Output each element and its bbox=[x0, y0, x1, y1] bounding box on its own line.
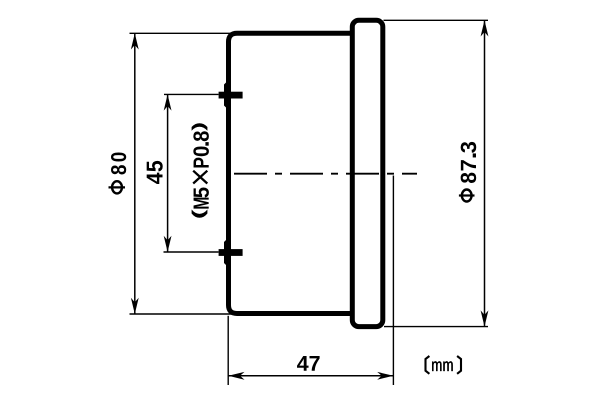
stud boss lower bbox=[224, 237, 229, 268]
extension line phi87.3 top bbox=[384, 19, 489, 21]
arrow 45 bottom bbox=[164, 236, 172, 252]
label 47 digit 7 bbox=[310, 356, 320, 371]
unit note bracket left bbox=[426, 356, 430, 374]
label phi87.3 period bbox=[473, 153, 476, 157]
arrow phi80 bottom bbox=[131, 298, 139, 314]
label phi87.3 diameter symbol ring bbox=[462, 190, 472, 202]
arrow 45 top bbox=[164, 94, 172, 110]
label M5xP0.8 digit 8 bbox=[193, 131, 209, 141]
arrow phi80 top bbox=[131, 33, 139, 49]
label phi87.3 digit 8 bbox=[461, 173, 477, 183]
stud boss upper bbox=[224, 80, 229, 111]
gauge case body bbox=[229, 33, 354, 313]
extension line 45 top bbox=[164, 93, 219, 95]
label M5xP0.8 digit 5 bbox=[194, 188, 209, 198]
label 45 digit 5 bbox=[147, 161, 163, 172]
bezel flange bbox=[352, 20, 383, 326]
arrow phi87.3 bottom bbox=[481, 310, 489, 326]
extension line 47 right bbox=[392, 176, 394, 386]
label M5xP0.8 opening paren bbox=[192, 209, 208, 217]
extension line 45 bottom bbox=[164, 251, 219, 253]
label 45 digit 4 bbox=[147, 173, 163, 184]
center line bbox=[234, 173, 417, 175]
label phi87.3 digit 3 bbox=[461, 142, 477, 153]
dimension line phi80 bbox=[134, 33, 136, 314]
label M5xP0.8 digit 0 bbox=[193, 146, 209, 156]
arrow 47 right bbox=[377, 372, 393, 380]
label M5xP0.8 period bbox=[205, 142, 208, 146]
label M5xP0.8 closing paren bbox=[192, 123, 208, 131]
unit note letter m first bbox=[432, 361, 441, 371]
extension line phi80 top bbox=[130, 32, 237, 34]
extension line phi80 bottom bbox=[130, 313, 237, 315]
label M5xP0.8 multiply sign bbox=[193, 171, 207, 184]
label phi80 digit 8 bbox=[111, 165, 126, 174]
dimension line phi87.3 bbox=[484, 20, 486, 326]
label phi80 diameter symbol ring bbox=[112, 181, 122, 193]
label phi87.3 diameter symbol stem bbox=[459, 194, 475, 196]
stud M5 upper bbox=[219, 92, 243, 99]
label M5xP0.8 letter P bbox=[194, 158, 209, 168]
unit note bracket right bbox=[457, 356, 461, 374]
arrow 47 left bbox=[228, 372, 244, 380]
dimension line 47 bbox=[228, 375, 393, 377]
arrow phi87.3 top bbox=[481, 20, 489, 36]
label phi80 diameter symbol stem bbox=[109, 186, 126, 188]
extension line phi87.3 bottom bbox=[384, 326, 488, 328]
label 47 digit 4 bbox=[297, 356, 309, 371]
stud M5 lower bbox=[219, 249, 243, 256]
label M5xP0.8 letter M bbox=[194, 198, 209, 209]
extension line 47 left bbox=[227, 316, 229, 385]
unit note letter m second bbox=[443, 361, 452, 371]
label phi87.3 digit 7 bbox=[461, 160, 476, 170]
label phi80 digit 0 bbox=[111, 153, 126, 162]
dimension line 45 bbox=[167, 94, 169, 252]
